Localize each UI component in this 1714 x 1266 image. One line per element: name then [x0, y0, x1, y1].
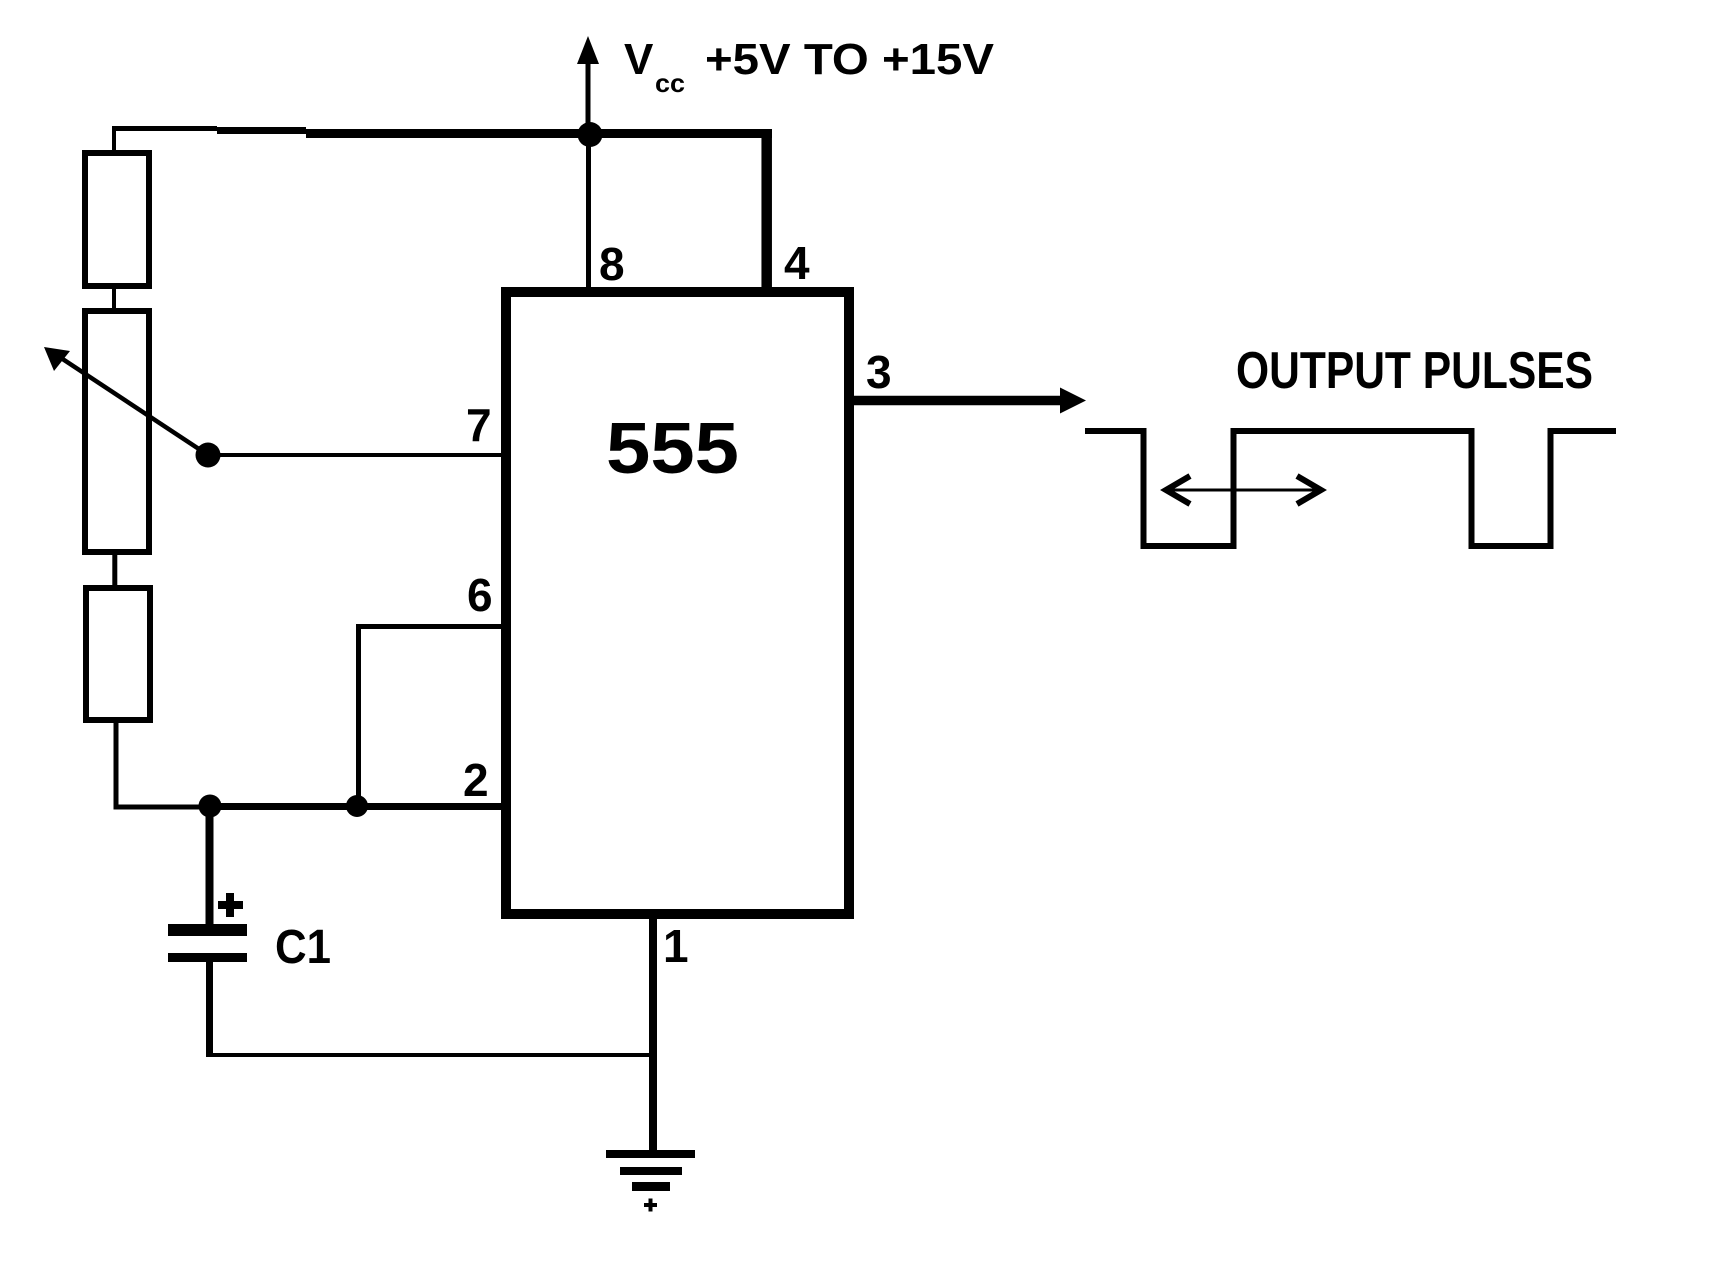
node: Vcc junction dot	[578, 122, 603, 147]
wire: pin 2 rail thin left segment	[114, 805, 211, 810]
resistor R3	[86, 588, 150, 720]
wire: pin 4 vertical drop	[761, 129, 772, 291]
svg-text:7: 7	[466, 399, 492, 451]
potentiometer wiper arrow line	[52, 352, 208, 455]
node: junction dot at C1	[199, 795, 222, 818]
svg-text:3: 3	[866, 346, 892, 398]
potentiometer arrowhead	[44, 347, 70, 371]
wire: top rail middle segment	[217, 127, 306, 134]
svg-text:2: 2	[463, 754, 489, 806]
wire: stub between R2 and R3	[112, 552, 117, 591]
capacitor C1 bottom plate	[168, 953, 247, 962]
wire: pin 8 vertical drop	[586, 134, 591, 291]
svg-text:C1: C1	[275, 921, 331, 974]
wire: pin 6 vertical branch	[356, 627, 361, 807]
right arrowhead of double arrow	[1297, 476, 1321, 504]
svg-text:cc: cc	[655, 68, 685, 98]
ground bar 3	[632, 1182, 670, 1191]
wire: pin 1 drop to ground	[649, 914, 657, 1154]
wire: stub between R1 and R2	[112, 286, 116, 314]
svg-text:1: 1	[663, 920, 689, 972]
svg-text:4: 4	[784, 237, 810, 289]
svg-text:+5V TO +15V: +5V TO +15V	[705, 35, 995, 84]
wire: top rail thin segment	[112, 126, 217, 131]
svg-text:6: 6	[467, 569, 493, 621]
wire: pin 3 output lead	[849, 396, 1062, 406]
svg-text:V: V	[624, 35, 654, 84]
svg-text:555: 555	[606, 409, 739, 489]
capacitor C1 plus sign	[218, 901, 243, 909]
node: wiper dot	[196, 443, 221, 468]
svg-text:OUTPUT PULSES: OUTPUT PULSES	[1236, 342, 1593, 400]
capacitor C1 top plate	[168, 924, 247, 936]
output waveform trace	[1085, 431, 1616, 546]
wire: C1 top lead	[206, 806, 214, 924]
wire: bottom return rail	[206, 1053, 653, 1057]
pin 3 output arrowhead	[1060, 388, 1086, 414]
wire: pin 6 horizontal to IC	[356, 624, 506, 629]
wire: R1 top stub to top rail	[112, 127, 116, 153]
svg-text:8: 8	[599, 238, 625, 290]
waveform period double arrow shaft	[1166, 489, 1321, 492]
wire: R3 bottom drop	[114, 720, 119, 810]
wire: top rail thick segment to pin 4 corner	[306, 129, 772, 138]
ground bar 1	[606, 1150, 695, 1158]
wire: Vcc stem	[586, 48, 591, 140]
ground bar 2	[620, 1167, 682, 1175]
op-amp/timer IC U1 555 body	[506, 292, 849, 914]
Vcc arrowhead	[577, 36, 599, 64]
node: junction dot at pin 6 branch	[346, 795, 368, 817]
wire: pin 2 rail thick segment to IC	[210, 803, 506, 810]
ground tiny plus	[644, 1203, 657, 1207]
resistor R1	[85, 153, 149, 286]
wire: C1 bottom lead	[206, 962, 213, 1057]
left arrowhead of double arrow	[1166, 476, 1190, 504]
wire: wiper to pin 7	[208, 453, 506, 457]
resistor R2 (potentiometer body)	[85, 311, 149, 552]
